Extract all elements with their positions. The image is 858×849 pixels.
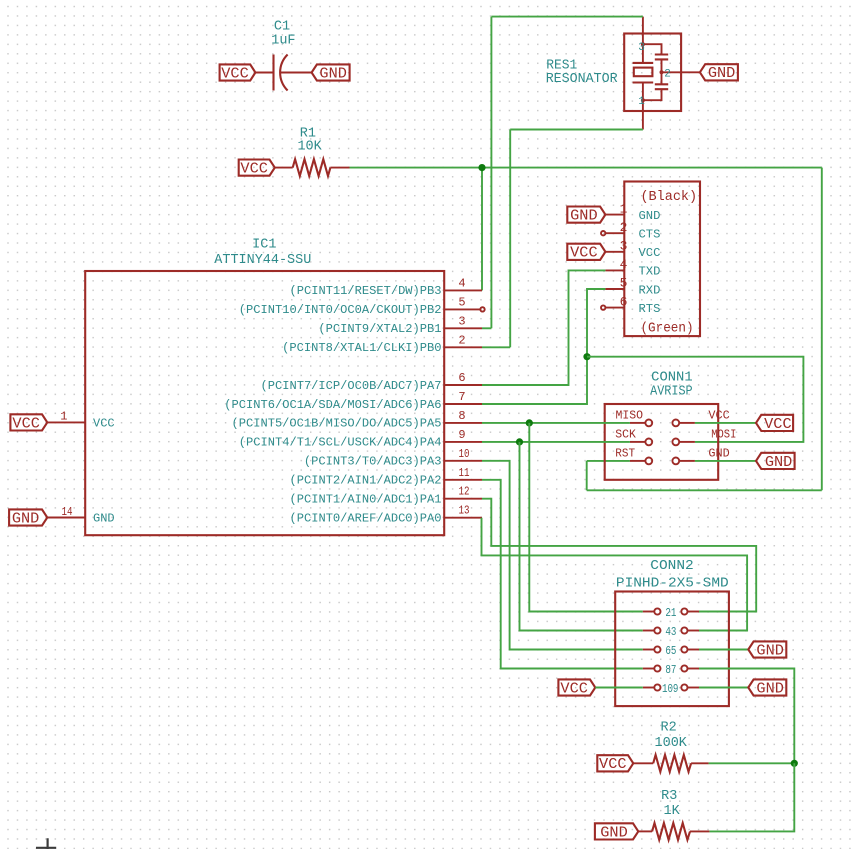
wire PA3 to CONN2 row3 [482,461,643,650]
svg-text:1: 1 [638,96,645,108]
svg-text:1uF: 1uF [271,34,295,49]
wire RESET right vertical [821,168,823,491]
svg-text:1: 1 [60,410,67,424]
ground flag GND (R3) [595,823,638,841]
FTDI pin 1 GND [605,201,660,223]
svg-text:5: 5 [620,276,628,291]
resistor R1 [275,159,350,176]
pin 5 PB2 [239,295,485,317]
FTDI pin 4 TXD [605,257,660,279]
svg-text:2: 2 [458,333,465,347]
svg-text:11: 11 [459,466,470,480]
wire SCK from IC pin 9 [482,441,630,443]
wire MISO from IC pin 8 [482,422,630,424]
svg-text:VCC: VCC [639,246,661,260]
wire VCC (CONN1) [695,422,756,424]
pin 12 PA1 [290,485,483,507]
svg-text:GND: GND [319,65,347,82]
CONN2 row 3 pins 6,5 [643,644,699,658]
svg-text:10K: 10K [297,140,322,155]
pin 4 PB3 [290,276,483,298]
wire XTAL2 top horizontal [491,16,643,18]
wire PA5 down to CONN2 row1 [529,423,643,612]
ground flag GND (CONN2 row5) [748,679,786,697]
wire XTAL1 vertical [509,130,511,348]
svg-text:100K: 100K [655,736,688,751]
power flag VCC (C1) [220,64,256,82]
pin 10 PA3 [304,447,482,469]
svg-text:14: 14 [62,505,73,519]
wire divider row4 (CONN2) to R2/R3 [699,669,794,764]
svg-text:(PCINT9/XTAL2)PB1: (PCINT9/XTAL2)PB1 [318,322,441,336]
svg-text:TXD: TXD [639,265,661,279]
junction RESET at R1 line [478,164,485,171]
ground flag GND (C1) [312,64,350,82]
ground flag GND (CONN2 row3) [748,641,786,659]
junction divider node [791,760,798,767]
svg-text:GND: GND [756,642,784,659]
svg-text:7: 7 [458,390,465,404]
resistor R2 [633,755,708,772]
svg-text:(PCINT1/AIN0/ADC1)PA1: (PCINT1/AIN0/ADC1)PA1 [290,493,442,507]
svg-text:(PCINT0/AREF/ADC0)PA0: (PCINT0/AREF/ADC0)PA0 [290,512,442,526]
svg-text:CONN1: CONN1 [651,371,693,386]
svg-text:1K: 1K [663,804,680,819]
svg-text:6: 6 [620,294,628,309]
svg-text:2: 2 [664,69,671,81]
wire GND row3 (CONN2) [699,649,748,651]
connector CONN1 AVRISP box [605,404,719,480]
CONN2 row 4 pins 8,7 [643,663,699,677]
wire PA2 to CONN2 row4 [482,480,643,669]
svg-text:3: 3 [620,239,628,254]
wire GND row5 (CONN2) [699,687,748,689]
svg-text:VCC: VCC [764,416,792,433]
pin 6 PA7 [261,371,483,393]
wire RESET horizontal from R1 [350,167,822,169]
svg-text:PINHD-2X5-SMD: PINHD-2X5-SMD [616,576,729,591]
CONN1 pin VCC [672,409,729,427]
svg-text:9: 9 [458,428,465,442]
wire XTAL1 to IC pin 2 [482,346,510,348]
power flag VCC (CONN2 row5) [558,679,595,697]
svg-text:MISO: MISO [616,409,644,423]
IC U1 ATTINY44 box [85,271,444,535]
svg-text:ATTINY44-SSU: ATTINY44-SSU [214,253,311,268]
svg-text:RESONATOR: RESONATOR [546,72,618,87]
connector CONN2 box [615,592,729,707]
pin 2 PB0 [282,333,482,355]
resistor R3 [638,823,709,840]
junction MOSI net [583,353,590,360]
pin 1 VCC [48,410,115,431]
pin 3 PB1 [318,314,482,336]
FTDI pin 3 VCC [605,239,660,261]
pin 11 PA2 [290,466,483,488]
svg-text:2: 2 [620,220,628,235]
power flag VCC (R1) [239,160,275,178]
wire XTAL1 horizontal under resonator [510,129,643,131]
svg-text:VCC: VCC [93,417,115,431]
svg-text:SCK: SCK [615,428,636,442]
pin 13 PA0 [290,504,483,526]
svg-text:(PCINT10/INT0/OC0A/CKOUT)PB2: (PCINT10/INT0/OC0A/CKOUT)PB2 [239,303,442,317]
wire GND (CONN1) [695,460,756,462]
junction MISO [526,419,533,426]
svg-text:AVRISP: AVRISP [650,385,693,400]
pin 7 PA6 [224,390,482,412]
wire RESET bottom horizontal [587,489,822,491]
svg-text:(Green): (Green) [640,322,693,337]
svg-text:IC1: IC1 [252,238,276,253]
svg-text:GND: GND [708,65,736,82]
resonator RES1 [624,17,700,130]
wire PA0 to CONN2 row2 right [482,518,748,631]
svg-text:43: 43 [665,625,676,639]
wire divider node down to R3 [709,763,794,831]
svg-text:RXD: RXD [639,283,661,297]
ground flag GND (FTDI) [567,207,605,225]
svg-text:R2: R2 [660,721,676,736]
FTDI pin 6 RTS [601,294,660,316]
svg-text:(PCINT8/XTAL1/CLKI)PB0: (PCINT8/XTAL1/CLKI)PB0 [282,341,441,355]
origin marker cross [36,838,56,849]
svg-text:12: 12 [459,485,470,499]
svg-text:(PCINT4/T1/SCL/USCK/ADC4)PA4: (PCINT4/T1/SCL/USCK/ADC4)PA4 [239,436,442,450]
wire PA1 to CONN2 row1 right [482,499,756,612]
svg-text:MOSI: MOSI [711,428,736,442]
power flag VCC (FTDI) [567,244,605,262]
svg-text:VCC: VCC [560,680,588,697]
svg-text:VCC: VCC [221,65,249,82]
svg-text:109: 109 [662,682,679,696]
junction SCK [516,438,523,445]
svg-text:GND: GND [756,680,784,697]
pin 8 PA5 [232,409,483,431]
svg-text:GND: GND [708,447,729,461]
svg-text:GND: GND [765,454,793,471]
svg-text:GND: GND [639,209,661,223]
svg-text:(PCINT7/ICP/OC0B/ADC7)PA7: (PCINT7/ICP/OC0B/ADC7)PA7 [261,379,442,393]
svg-text:5: 5 [458,295,465,309]
svg-text:3: 3 [638,42,645,54]
svg-text:VCC: VCC [240,161,268,178]
svg-text:GND: GND [93,512,115,526]
wire VCC row5 (CONN2) [595,687,643,689]
FTDI pin 5 RXD [605,276,660,298]
ground flag GND (CONN1) [756,453,795,471]
CONN1 pin RST [615,447,652,465]
svg-text:VCC: VCC [12,415,40,432]
CONN1 pin MOSI [672,428,736,446]
wire RESET down to IC pin 4 [481,168,483,291]
svg-text:1: 1 [620,201,628,216]
svg-text:(Black): (Black) [640,190,697,205]
CONN2 row 5 pins 10,9 [643,682,699,696]
ground flag GND (RES1) [700,64,738,82]
svg-text:VCC: VCC [599,756,627,773]
svg-text:GND: GND [570,208,598,225]
CONN2 row 1 pins 2,1 [643,606,699,620]
svg-text:4: 4 [458,276,465,290]
wire TXD to PA7 [482,270,605,385]
svg-text:(PCINT11/RESET/DW)PB3: (PCINT11/RESET/DW)PB3 [290,284,442,298]
wire XTAL2 to IC pin 3 [482,327,491,329]
CONN1 pin MISO [616,409,653,427]
wire R2 to divider node [709,762,795,764]
svg-text:65: 65 [665,644,676,658]
svg-text:4: 4 [620,257,628,272]
svg-text:21: 21 [665,606,676,620]
svg-text:(PCINT3/T0/ADC3)PA3: (PCINT3/T0/ADC3)PA3 [304,455,442,469]
capacitor C1 [255,55,312,91]
svg-text:6: 6 [458,371,465,385]
svg-text:(PCINT2/AIN1/ADC2)PA2: (PCINT2/AIN1/ADC2)PA2 [290,474,442,488]
CONN1 pin GND [672,447,729,465]
CONN2 row 2 pins 4,3 [643,625,699,639]
wire MOSI net to CONN1 MOSI [587,357,803,442]
svg-text:C1: C1 [274,19,290,34]
ground flag GND (IC1) [9,509,47,527]
svg-text:8: 8 [458,409,465,423]
svg-text:87: 87 [665,663,676,677]
wire RESET to CONN1 RST pin [587,460,630,462]
svg-text:3: 3 [458,314,465,328]
svg-text:(PCINT5/OC1B/MISO/DO/ADC5)PA5: (PCINT5/OC1B/MISO/DO/ADC5)PA5 [232,417,442,431]
svg-text:VCC: VCC [570,245,598,262]
FTDI pin 2 CTS [601,220,660,242]
svg-text:10: 10 [459,447,470,461]
svg-text:RTS: RTS [639,302,661,316]
wire MOSI net down to PA6 [482,357,587,404]
wire RXD down [587,289,605,357]
pin 14 GND [48,505,115,526]
svg-text:VCC: VCC [708,409,729,423]
CONN1 pin SCK [615,428,652,446]
power flag VCC (R2) [597,755,633,773]
pin 9 PA4 [239,428,482,450]
svg-text:GND: GND [12,510,40,527]
svg-text:R3: R3 [661,789,677,804]
svg-text:13: 13 [459,504,470,518]
wire XTAL2 vertical [490,17,492,329]
svg-text:CONN2: CONN2 [650,559,694,574]
wire RESET up to RST row [586,461,588,490]
power flag VCC (IC1) [10,414,47,432]
power flag VCC (CONN1) [756,415,793,433]
svg-text:RST: RST [615,447,635,461]
svg-text:(PCINT6/OC1A/SDA/MOSI/ADC6)PA6: (PCINT6/OC1A/SDA/MOSI/ADC6)PA6 [224,398,441,412]
svg-text:GND: GND [600,824,628,841]
FTDI header box [624,182,700,337]
wire PA4 down to CONN2 row2 [520,442,643,631]
svg-text:CTS: CTS [639,228,661,242]
